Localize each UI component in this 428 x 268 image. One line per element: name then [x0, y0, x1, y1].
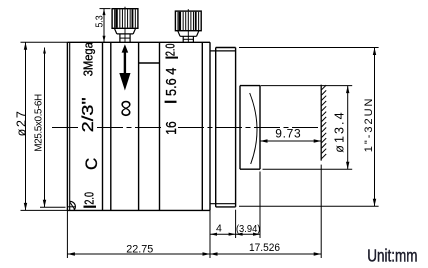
svg-text:ø13.4: ø13.4: [333, 112, 347, 152]
thread root line top (neck jog): [210, 50, 236, 52]
dimension 4 (rear face to ring rear): [210, 233, 236, 235]
lock-screw slot bottom line: [139, 62, 160, 64]
dimension 17.526 (flange focal distance): [235, 210, 237, 238]
svg-text:2.0: 2.0: [164, 43, 178, 56]
svg-text:16: 16: [163, 121, 180, 134]
C-mount ring top edge: [216, 47, 236, 49]
front aperture index tick: [84, 206, 97, 208]
rear barrel bottom edge: [240, 168, 260, 170]
svg-text:M25.5x0.5-6H: M25.5x0.5-6H: [33, 94, 44, 152]
bold double-headed focus direction arrow: [124, 52, 126, 75]
svg-text:5.6 4: 5.6 4: [163, 68, 180, 96]
svg-text:Unit:mm: Unit:mm: [367, 246, 417, 266]
filter thread relief arc (front lower corner): [70, 201, 76, 210]
svg-text:3Mega: 3Mega: [82, 42, 96, 76]
svg-text:2.0: 2.0: [83, 192, 97, 205]
aperture index tick mid: [165, 101, 177, 103]
focus ring rear edge: [138, 42, 140, 210]
thread root line bottom (neck jog): [210, 203, 236, 205]
rear barrel front face: [239, 86, 241, 170]
front rim inner line: [69, 42, 71, 210]
thumb screw 2 (iris lock): [175, 11, 201, 31]
dimension (3.94) (ring rear to barrel rear): [236, 233, 260, 235]
svg-text:22.75: 22.75: [126, 244, 153, 256]
C-mount ring front face: [215, 48, 217, 207]
horizontal centerline (dash-dot): [52, 127, 81, 129]
C-mount ring rear face: [235, 48, 237, 207]
dimension 5.3 (screw height): [100, 8, 111, 10]
zoom ring front edge: [159, 42, 161, 210]
dimension 22.75 (body length): [66, 210, 68, 258]
svg-text:17.526: 17.526: [249, 242, 280, 254]
svg-text:∞: ∞: [112, 100, 139, 117]
svg-text:9.73: 9.73: [275, 127, 301, 141]
svg-text:1"-32UN: 1"-32UN: [363, 99, 375, 153]
svg-text:C: C: [82, 158, 101, 170]
dimension 1"-32UN (C-mount thread): [239, 47, 379, 49]
lens body outline (main barrel, front face to rear face): [67, 41, 210, 43]
rear barrel rear face: [259, 86, 261, 170]
aperture index tick top: [166, 57, 179, 59]
front ring rear edge: [102, 42, 104, 210]
image plane hatching: [322, 85, 327, 90]
rear barrel top edge: [240, 85, 260, 87]
svg-text:5.3: 5.3: [93, 15, 105, 27]
image plane line: [320, 85, 322, 161]
dimension M25.5x0.5-6H (filter thread): [40, 206, 66, 208]
rear groove line: [201, 42, 203, 210]
dimension ø27 (body diameter): [21, 41, 68, 43]
svg-text:2/3": 2/3": [80, 97, 97, 132]
svg-text:(3.94): (3.94): [236, 223, 261, 235]
thumb screw 1 (focus lock): [112, 9, 138, 29]
rear lens element surface arc: [250, 93, 257, 164]
dimension ø13.4 (rear barrel diameter): [261, 85, 353, 87]
focus ring front edge: [110, 42, 112, 210]
dimension 9.73 (rear face to image plane): [260, 140, 321, 142]
svg-text:ø27: ø27: [14, 111, 28, 136]
svg-text:4: 4: [216, 223, 222, 235]
C-mount ring bottom edge: [216, 206, 236, 208]
